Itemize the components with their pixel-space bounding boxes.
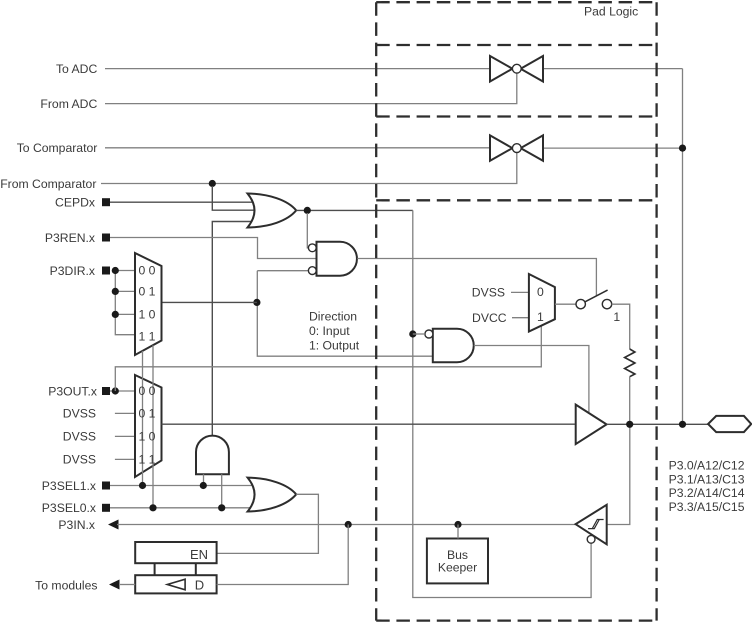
svg-text:P3IN.x: P3IN.x	[58, 518, 95, 532]
or gate OR2 (P3SEL any)	[248, 478, 297, 512]
svg-text:D: D	[195, 577, 204, 592]
svg-text:From ADC: From ADC	[40, 97, 97, 111]
wire OR2 output to EN latch	[217, 494, 319, 553]
schmitt trigger U5 input buffer	[576, 505, 607, 545]
latch L1 D box	[135, 575, 216, 593]
transmission gate TG2 (Comparator) left triangle	[490, 135, 512, 160]
and gate AND2 (output enable)	[433, 329, 474, 363]
svg-text:1 0: 1 0	[139, 430, 156, 444]
svg-text:CEPDx: CEPDx	[55, 196, 95, 210]
resistor R1	[625, 349, 635, 377]
bubble AND1 input b	[308, 267, 316, 275]
svg-text:0: 0	[537, 285, 544, 299]
svg-text:P3.3/A15/C15: P3.3/A15/C15	[669, 500, 745, 514]
node TG2 pad column junction	[679, 145, 686, 152]
wire direction column to AND1 lower bubble	[257, 270, 308, 272]
terminal square P3REN.x	[102, 234, 110, 242]
node P3DIR dot row 00	[112, 267, 119, 274]
switch S1 left contact	[576, 299, 585, 308]
switch S1 lever	[585, 290, 607, 302]
terminal square P3DIR.x	[102, 267, 110, 275]
wire From Comparator to OR1 input	[212, 186, 256, 210]
svg-text:P3DIR.x: P3DIR.x	[50, 264, 95, 278]
svg-text:EN: EN	[190, 547, 208, 562]
wire resistor to pad line	[629, 377, 631, 425]
node OR1 output junction	[304, 207, 311, 214]
latch L1 leg b	[195, 563, 197, 575]
box Bus Keeper	[427, 539, 488, 584]
node P3IN latch tap	[345, 521, 352, 528]
node P3SEL0 mux tap	[149, 504, 156, 511]
svg-text:DVSS: DVSS	[63, 453, 96, 467]
svg-text:P3SEL0.x: P3SEL0.x	[42, 501, 96, 515]
latch L1 leg a	[154, 563, 156, 575]
arrow To modules	[109, 580, 120, 590]
node P3IN bus keeper tap	[454, 521, 461, 528]
svg-text:0 0: 0 0	[139, 384, 156, 398]
wire From Comparator	[101, 153, 517, 184]
svg-text:0 1: 0 1	[139, 285, 156, 299]
wire pad column vertical	[682, 69, 684, 425]
wire driver output pad line	[607, 423, 709, 425]
wire P3SEL0 line	[110, 507, 256, 509]
transmission gate TG2 right triangle	[521, 135, 543, 160]
svg-text:Keeper: Keeper	[438, 560, 477, 574]
wire AND3 input leg a	[203, 474, 205, 485]
svg-text:P3.2/A14/C14: P3.2/A14/C14	[669, 486, 745, 500]
svg-text:P3REN.x: P3REN.x	[45, 231, 95, 245]
bubble AND1 input a	[308, 244, 316, 252]
wire TG2 output	[543, 147, 683, 149]
svg-text:0: Input: 0: Input	[309, 324, 350, 338]
node AND2 enable junction	[409, 330, 416, 337]
wire AND2 junction stub	[413, 333, 425, 335]
svg-text:Pad Logic: Pad Logic	[584, 4, 638, 18]
wire TG1 output to pad column	[543, 68, 683, 70]
node P3SEL0 AND3 tap	[218, 504, 225, 511]
wire mux2 output to driver	[162, 423, 575, 425]
terminal square P3SEL0.x	[102, 504, 110, 512]
svg-text:P3.0/A12/C12: P3.0/A12/C12	[669, 459, 745, 473]
wire AND2 output to driver enable	[474, 346, 589, 413]
node P3SEL1 mux tap	[139, 482, 146, 489]
svg-text:P3OUT.x: P3OUT.x	[48, 384, 97, 398]
wire OR1 output down-column to schmitt enable	[413, 210, 591, 597]
wire AND3 output column to OR1 input	[212, 222, 256, 436]
wire P3IN line	[117, 524, 576, 526]
dashed separator Comparator/main	[376, 199, 656, 201]
svg-text:1: 1	[613, 310, 620, 324]
svg-text:1: 1	[537, 310, 544, 324]
svg-text:1: Output: 1: Output	[309, 339, 360, 353]
wire P3DIR row stub 00	[115, 270, 135, 272]
svg-text:0 0: 0 0	[139, 264, 156, 278]
node pad junction resistor	[626, 421, 633, 428]
wire D input from P3IN	[217, 525, 349, 585]
transmission gate TG2 bubble	[512, 144, 521, 153]
svg-text:DVSS: DVSS	[63, 430, 96, 444]
latch L1 clock triangle	[167, 579, 185, 590]
node pad junction column	[679, 421, 686, 428]
svg-text:DVSS: DVSS	[63, 407, 96, 421]
transmission gate TG1 (ADC) left triangle	[490, 56, 512, 82]
transmission gate TG1 bubble	[512, 64, 521, 73]
and gate AND3 (P3SEL both)	[196, 436, 229, 475]
svg-text:Direction: Direction	[309, 310, 357, 324]
latch L1 EN box	[135, 542, 216, 563]
bubble schmitt enable	[587, 535, 595, 543]
schmitt hysteresis glyph	[588, 520, 604, 529]
dashed pad-logic outer left	[375, 2, 377, 620]
dashed separator ADC/Comparator	[376, 115, 656, 117]
mux U3 pull select	[529, 274, 555, 332]
node P3SEL1 AND3 tap	[200, 482, 207, 489]
node From Comparator junction	[209, 180, 216, 187]
wire To ADC	[105, 68, 490, 70]
wire P3SEL1 line	[110, 485, 256, 487]
wire CEPDx to OR1	[110, 201, 256, 203]
dashed pad-logic bottom	[376, 619, 656, 621]
bubble AND2 input a	[425, 330, 433, 338]
wire D output to modules	[120, 584, 135, 586]
svg-text:0 1: 0 1	[139, 407, 156, 421]
node P3DIR dot row 01	[112, 288, 119, 295]
wire P3OUT to mux2 row 00	[110, 390, 135, 392]
svg-text:To modules: To modules	[35, 579, 97, 593]
wire U3 output to switch	[555, 303, 576, 305]
wire DVSS stub row10	[115, 435, 135, 437]
svg-text:To Comparator: To Comparator	[17, 141, 98, 155]
svg-text:From Comparator: From Comparator	[0, 177, 96, 191]
mux U1 direction mux	[135, 253, 162, 355]
wire mux1 output	[162, 301, 257, 303]
svg-text:DVSS: DVSS	[472, 286, 505, 300]
wire P3DIR vertical with row stubs	[115, 271, 135, 335]
wire DVSS stub row11	[115, 458, 135, 460]
svg-text:1 1: 1 1	[139, 330, 156, 344]
op gate OR1 CEPDx	[248, 194, 297, 228]
arrow P3IN.x	[108, 520, 119, 530]
pad P1 hexagon	[708, 416, 751, 432]
svg-text:DVCC: DVCC	[472, 311, 507, 325]
buffer U4 output driver	[576, 405, 607, 445]
node direction junction	[253, 299, 260, 306]
wire mux select column S1	[142, 351, 144, 486]
dashed pad-logic outer right	[655, 2, 657, 620]
switch S1 right contact	[602, 299, 611, 308]
terminal square P3SEL1.x	[102, 482, 110, 490]
wire direction column vertical	[257, 271, 433, 356]
wire DVCC stub to pull mux	[512, 317, 529, 319]
svg-text:1 1: 1 1	[139, 453, 156, 467]
dashed pad-logic top	[376, 1, 656, 3]
svg-text:P3SEL1.x: P3SEL1.x	[42, 479, 96, 493]
node P3OUT junction	[112, 387, 119, 394]
wire P3OUT select feed to pull mux	[115, 322, 541, 391]
mux U2 output mux	[135, 375, 162, 477]
terminal square P3OUT.x	[102, 387, 110, 395]
wire bus keeper tap	[457, 525, 459, 539]
wire P3DIR row stub 01	[115, 290, 135, 292]
svg-text:1 0: 1 0	[139, 308, 156, 322]
dashed separator under Pad Logic label	[376, 44, 656, 46]
wire DVSS stub row01	[115, 412, 135, 414]
transmission gate TG1 right triangle	[521, 56, 543, 82]
node P3DIR dot row 10	[112, 311, 119, 318]
wire AND3 input leg b	[221, 474, 223, 508]
terminal square CEPDx	[102, 198, 110, 206]
wire mux select column S0	[152, 345, 154, 508]
wire P3DIR row stub 10	[115, 313, 135, 315]
svg-text:P3.1/A13/C13: P3.1/A13/C13	[669, 472, 745, 486]
wire P3REN.x to AND1 middle input	[110, 238, 317, 259]
svg-text:To ADC: To ADC	[56, 62, 98, 76]
wire switch to resistor	[612, 304, 630, 349]
wire AND1 output to switch	[357, 259, 596, 296]
wire pad line tap to schmitt	[607, 424, 630, 524]
and gate AND1 (REN enable)	[317, 242, 357, 276]
wire OR1 output	[296, 209, 413, 211]
wire From ADC	[105, 73, 517, 103]
wire DVSS stub to pull mux	[511, 291, 529, 293]
wire To Comparator	[105, 147, 490, 149]
wire OR1 junction drop to AND1 bubble	[307, 213, 308, 248]
